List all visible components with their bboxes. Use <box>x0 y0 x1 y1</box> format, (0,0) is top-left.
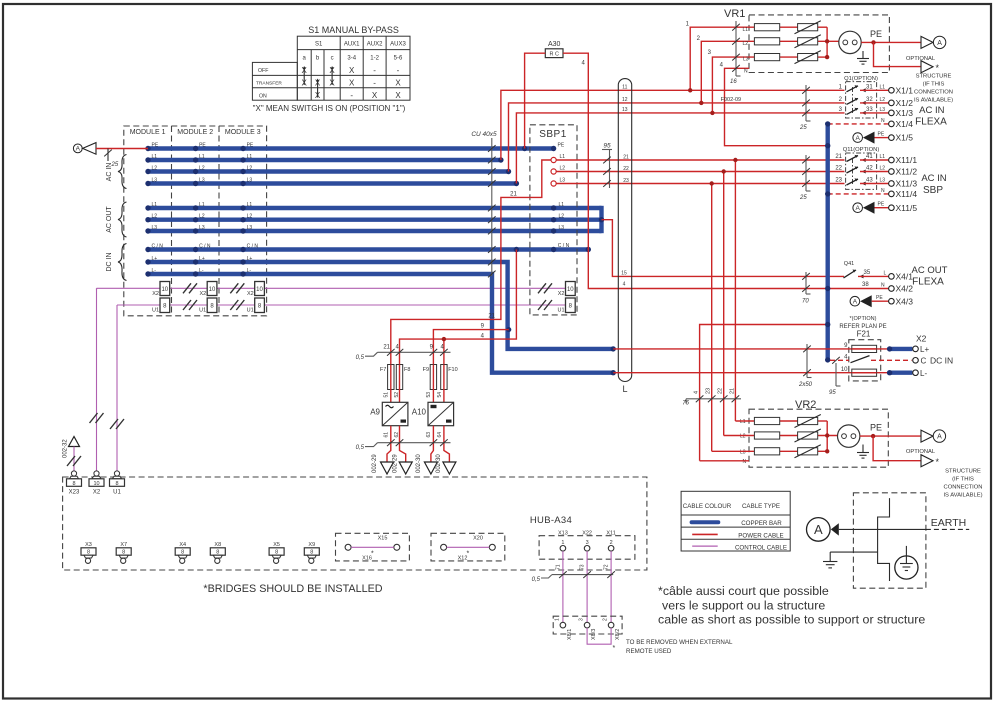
svg-text:*: * <box>371 551 374 558</box>
svg-text:COPPER BAR: COPPER BAR <box>741 520 782 527</box>
svg-text:38: 38 <box>862 282 869 288</box>
svg-text:L1: L1 <box>740 419 746 425</box>
svg-text:10: 10 <box>567 287 574 293</box>
svg-text:L2: L2 <box>880 97 886 103</box>
wire 22 SBP L2 to Q11 <box>556 171 844 173</box>
svg-text:(IF THIS: (IF THIS <box>923 82 945 88</box>
svg-text:10: 10 <box>161 287 168 293</box>
svg-text:13: 13 <box>622 107 628 113</box>
svg-text:002-32: 002-32 <box>63 439 69 458</box>
svg-text:cable as short as possible to: cable as short as possible to support or… <box>658 613 925 627</box>
svg-text:L2: L2 <box>247 214 253 220</box>
svg-text:X20: X20 <box>473 536 483 542</box>
svg-text:54: 54 <box>437 392 443 398</box>
wire VR1 L2 riser <box>701 41 754 103</box>
svg-text:X2: X2 <box>916 334 927 344</box>
VR1 surge protection <box>686 8 953 146</box>
wires fuses to A9/A10 <box>390 390 392 403</box>
ground under socket <box>862 51 864 59</box>
bundle 16 marker <box>735 21 737 76</box>
wire 22 drop to VR2 L2 <box>723 172 725 436</box>
svg-text:L2: L2 <box>880 166 886 172</box>
svg-text:16: 16 <box>730 79 737 85</box>
varistor L3 <box>798 54 818 61</box>
svg-text:IS AVAILABLE): IS AVAILABLE) <box>943 493 982 499</box>
connector X4 <box>175 542 190 563</box>
wire 21 SBP L1 to Q11 <box>556 159 844 161</box>
svg-text:002-30: 002-30 <box>416 454 422 473</box>
wire 3 from Q1 to AC IN L3 <box>516 113 844 184</box>
label AC OUT with brace <box>106 202 127 237</box>
svg-text:X: X <box>395 78 401 87</box>
connector X7 <box>116 542 131 563</box>
arrow to structure <box>831 523 839 535</box>
svg-text:3-4: 3-4 <box>347 55 356 61</box>
svg-text:A: A <box>856 135 861 142</box>
svg-text:PE: PE <box>878 202 885 208</box>
svg-text:42: 42 <box>866 166 873 172</box>
svg-text:C: C <box>921 356 927 365</box>
svg-text:FLEXA: FLEXA <box>915 117 947 128</box>
svg-text:L-: L- <box>920 369 927 378</box>
pin numbers 61-64 <box>384 432 443 438</box>
svg-text:L3: L3 <box>247 177 253 183</box>
svg-text:CONNECTION: CONNECTION <box>914 90 953 96</box>
svg-text:F10: F10 <box>448 367 457 373</box>
copper bar DC L+ <box>148 262 613 349</box>
svg-text:23: 23 <box>623 178 629 184</box>
CU 40x5 busbar marker <box>471 131 497 277</box>
svg-text:IS AVAILABLE): IS AVAILABLE) <box>914 98 953 104</box>
svg-text:73: 73 <box>580 564 586 570</box>
svg-text:N: N <box>743 459 747 465</box>
svg-text:N: N <box>881 283 885 289</box>
svg-text:22: 22 <box>623 166 629 172</box>
svg-text:CONNECTION: CONNECTION <box>944 485 983 491</box>
svg-text:F21: F21 <box>857 330 871 339</box>
svg-text:L1: L1 <box>152 202 158 208</box>
earth structure group <box>807 493 970 588</box>
fuse F8 <box>396 365 410 390</box>
svg-text:*: * <box>936 63 940 73</box>
svg-text:4: 4 <box>623 282 626 288</box>
svg-text:0,5: 0,5 <box>356 355 365 361</box>
svg-text:X22: X22 <box>582 531 592 537</box>
svg-text:25: 25 <box>799 125 807 131</box>
svg-text:1-2: 1-2 <box>370 55 379 61</box>
svg-text:A9: A9 <box>370 408 380 417</box>
copper bar AC OUT L2 <box>148 217 602 221</box>
svg-text:STRUCTURE: STRUCTURE <box>945 469 981 475</box>
svg-text:X15: X15 <box>378 536 388 542</box>
svg-text:vers le support ou la structur: vers le support ou la structure <box>662 599 825 613</box>
svg-text:-: - <box>350 91 353 100</box>
label DC IN with brace <box>106 244 127 281</box>
bundle 2x50 marker <box>798 344 813 388</box>
svg-text:X11/4: X11/4 <box>896 189 918 199</box>
svg-text:L2: L2 <box>199 214 205 220</box>
svg-text:U1: U1 <box>247 308 254 314</box>
terminal X11/4 N dashed <box>828 188 918 199</box>
svg-text:X8/2: X8/2 <box>615 629 621 640</box>
svg-text:23: 23 <box>835 178 842 184</box>
svg-text:C / N: C / N <box>247 243 259 249</box>
wire 9 DC L+ row <box>613 348 889 350</box>
svg-text:X13: X13 <box>558 531 568 537</box>
svg-text:0,5: 0,5 <box>532 577 541 583</box>
remote plug box X8 <box>553 616 622 640</box>
svg-text:X2: X2 <box>558 291 565 297</box>
svg-text:*BRIDGES SHOULD BE INSTALLED: *BRIDGES SHOULD BE INSTALLED <box>203 583 382 595</box>
fuse F21-10 <box>852 369 877 376</box>
copper bar AC OUT L3 <box>148 229 602 233</box>
wire C dashed with switch <box>830 359 849 361</box>
svg-text:L2: L2 <box>199 165 205 171</box>
svg-text:22: 22 <box>718 388 724 394</box>
svg-text:11: 11 <box>622 85 627 91</box>
svg-text:X2: X2 <box>152 291 159 297</box>
svg-text:A: A <box>856 205 861 212</box>
svg-text:REMOTE USED: REMOTE USED <box>626 648 672 655</box>
svg-text:70: 70 <box>802 299 809 305</box>
svg-text:L: L <box>622 384 627 394</box>
svg-text:L1: L1 <box>247 202 253 208</box>
svg-text:MODULE 2: MODULE 2 <box>177 129 213 136</box>
bundle 76 marker <box>682 388 741 407</box>
svg-text:OFF: OFF <box>258 68 268 74</box>
svg-text:L3: L3 <box>560 178 566 184</box>
terminal X4/3 PE with A arrow <box>850 295 913 307</box>
svg-text:F002-09: F002-09 <box>721 97 742 103</box>
terminal X11/5 PE with A arrow <box>853 202 917 214</box>
svg-text:X1/1: X1/1 <box>896 85 914 95</box>
SBP1 input plug circles <box>551 157 556 186</box>
svg-text:F9: F9 <box>423 367 429 373</box>
svg-text:PE: PE <box>870 423 882 433</box>
svg-text:21: 21 <box>510 192 517 198</box>
svg-text:*câble aussi court que possibl: *câble aussi court que possible <box>658 584 829 598</box>
cable break marks on control risers <box>90 413 104 423</box>
cable arrows 002-29 / 002-30 <box>381 462 456 474</box>
SBP1 box <box>530 125 577 315</box>
wire 4 N bus to VR2 N <box>700 325 828 461</box>
connector X9 <box>304 542 319 563</box>
svg-text:X1/3: X1/3 <box>896 108 914 118</box>
svg-text:35: 35 <box>864 270 871 276</box>
svg-text:AUX3: AUX3 <box>390 42 406 48</box>
svg-text:C / N: C / N <box>558 243 570 249</box>
svg-text:CABLE COLOUR: CABLE COLOUR <box>683 503 732 510</box>
svg-text:X1/5: X1/5 <box>896 133 914 143</box>
copper bar PE <box>148 146 554 150</box>
earth electrode circle <box>895 556 918 579</box>
svg-text:21: 21 <box>488 314 495 320</box>
copper bar AC IN L2 <box>148 169 509 173</box>
svg-text:95: 95 <box>829 390 836 396</box>
fuse F7 <box>380 365 394 390</box>
svg-text:12: 12 <box>622 97 628 103</box>
node A arrow feeding PE <box>73 143 148 168</box>
svg-text:L2: L2 <box>559 214 565 220</box>
svg-text:X11: X11 <box>606 531 615 537</box>
svg-text:X: X <box>349 78 355 87</box>
svg-text:N: N <box>881 118 885 124</box>
svg-text:L2: L2 <box>152 214 158 220</box>
svg-text:L2: L2 <box>247 165 253 171</box>
svg-text:N: N <box>744 69 748 75</box>
switch Q1 (OPTION) <box>839 76 889 118</box>
fuse VR2-L1 <box>754 417 779 424</box>
control cable riser to U1 connector <box>116 305 118 471</box>
svg-text:21: 21 <box>835 154 842 160</box>
svg-text:15: 15 <box>621 271 627 277</box>
svg-text:L1: L1 <box>743 27 749 33</box>
svg-text:L3: L3 <box>880 107 886 113</box>
bundle 25 marker rows 1-3 <box>799 85 811 131</box>
control wires 71/73/72 down to X8 <box>562 551 564 622</box>
svg-text:MODULE 3: MODULE 3 <box>225 129 261 136</box>
svg-text:X2: X2 <box>199 291 206 297</box>
svg-text:MODULE 1: MODULE 1 <box>130 129 166 136</box>
svg-text:72: 72 <box>604 564 610 570</box>
svg-text:U1: U1 <box>113 490 121 496</box>
svg-text:A10: A10 <box>412 408 427 417</box>
copper bar AC OUT L1 <box>148 206 602 210</box>
svg-text:-: - <box>373 78 376 87</box>
svg-text:F8: F8 <box>404 367 410 373</box>
bundle 0,5 marker lower <box>356 439 451 451</box>
svg-text:X: X <box>349 66 355 75</box>
wire 2 from Q1 to AC IN L2 <box>509 103 845 172</box>
svg-text:L3: L3 <box>740 449 746 455</box>
ground under socket VR2 <box>862 445 864 453</box>
svg-text:5-6: 5-6 <box>394 55 403 61</box>
terminal X1/4 N dashed <box>828 118 914 129</box>
svg-text:*(OPTION): *(OPTION) <box>850 316 877 322</box>
svg-text:S1: S1 <box>315 42 323 48</box>
svg-text:EARTH: EARTH <box>931 517 966 529</box>
svg-text:X4: X4 <box>179 542 186 548</box>
svg-text:L+: L+ <box>920 345 929 354</box>
hub box HUB-A34 <box>63 477 647 570</box>
output wires to plant cables <box>387 426 391 462</box>
wire A30 right (4) down to C/N <box>563 53 588 249</box>
fuse VR2-L3 <box>754 448 779 455</box>
svg-text:X8/3: X8/3 <box>591 629 597 640</box>
svg-text:X2: X2 <box>247 291 254 297</box>
legend cable colour table <box>681 491 790 551</box>
node A circle <box>807 518 831 542</box>
wires through fuses/varistors <box>780 26 798 28</box>
svg-text:32: 32 <box>866 97 873 103</box>
svg-text:25: 25 <box>111 162 119 168</box>
control cable U1 row <box>117 304 566 306</box>
svg-text:002-30: 002-30 <box>436 454 442 473</box>
remote terminal box X13/X22/X11 <box>539 531 635 560</box>
svg-text:8: 8 <box>72 481 75 487</box>
svg-text:L3: L3 <box>152 177 158 183</box>
terminals X1/1-3 <box>889 85 914 118</box>
bundle 95 marker at SBP right <box>602 143 612 189</box>
svg-text:3: 3 <box>579 618 585 621</box>
copper bar C/N <box>148 247 588 251</box>
svg-text:DC IN: DC IN <box>106 252 113 271</box>
svg-text:A: A <box>853 299 858 306</box>
fuse F-L3 <box>754 54 779 61</box>
N bus junction dots <box>825 121 830 362</box>
svg-text:A: A <box>814 522 823 537</box>
wire 23 drop to VR2 L3 <box>711 184 713 452</box>
bundle 70 marker <box>802 272 811 305</box>
copper bar AC IN L3 <box>148 181 516 185</box>
svg-text:8: 8 <box>115 481 118 487</box>
svg-text:L+: L+ <box>199 256 205 262</box>
svg-text:L2: L2 <box>560 166 566 172</box>
copper bar AC IN L1 <box>148 158 501 162</box>
module terminal labels and dots <box>152 142 259 273</box>
svg-text:L-: L- <box>199 268 204 274</box>
svg-text:X1/2: X1/2 <box>896 98 914 108</box>
svg-text:PE: PE <box>558 142 565 148</box>
svg-text:10: 10 <box>256 287 263 293</box>
socket symbol <box>839 31 861 53</box>
svg-text:X23: X23 <box>69 490 80 496</box>
removable bridge X8/3 to X8/2 <box>587 628 611 644</box>
wire 4 VR1 N riser to N bus <box>725 68 828 145</box>
switch Q41 <box>844 261 914 282</box>
bundle 25 marker rows 21-23 <box>799 155 811 201</box>
svg-text:R C: R C <box>549 52 559 58</box>
svg-text:PE: PE <box>878 132 885 138</box>
terminals X11/1-3 <box>889 155 918 189</box>
svg-text:L1: L1 <box>199 154 205 160</box>
wire 4 from C/N to F8/F10 <box>400 250 517 365</box>
svg-text:c: c <box>331 55 334 61</box>
svg-text:FLEXA: FLEXA <box>912 277 944 288</box>
label AC IN with brace <box>106 155 127 189</box>
svg-text:L1: L1 <box>559 202 565 208</box>
svg-text:SBP1: SBP1 <box>539 129 567 140</box>
svg-text:61: 61 <box>384 432 390 438</box>
svg-text:-: - <box>397 66 400 75</box>
fuse F21-9 <box>852 345 877 352</box>
svg-text:41: 41 <box>866 154 873 160</box>
VR2 surge protection <box>700 399 983 499</box>
svg-text:AC OUT: AC OUT <box>106 206 113 233</box>
fuse block F21 <box>613 330 953 381</box>
copper bar DC L- <box>148 274 613 373</box>
varistor VR2-L3 <box>798 448 818 455</box>
svg-text:L3: L3 <box>559 225 565 231</box>
connector X8 <box>210 542 225 563</box>
connector X23 <box>67 471 82 496</box>
varistor VR2-L2 <box>798 432 818 439</box>
svg-text:76: 76 <box>682 401 689 407</box>
converter A10 <box>412 402 454 425</box>
connector U1 <box>110 471 125 496</box>
svg-text:AC IN: AC IN <box>919 105 944 116</box>
connector blocks X2/U1 on modules and SBP1 <box>97 282 576 314</box>
svg-text:L1: L1 <box>199 202 205 208</box>
terminal X4/2 <box>862 282 913 294</box>
copper bar N bus vertical <box>826 124 830 360</box>
svg-text:U1: U1 <box>557 308 564 314</box>
converter A9 <box>370 402 408 425</box>
svg-text:L3: L3 <box>743 57 749 63</box>
svg-text:"X" MEAN SWITGH IS ON (POSITIO: "X" MEAN SWITGH IS ON (POSITION "1") <box>253 104 406 113</box>
svg-text:DC IN: DC IN <box>930 356 953 366</box>
bridge box X15/X16 <box>336 533 410 561</box>
svg-text:AUX1: AUX1 <box>344 42 360 48</box>
svg-text:*: * <box>936 457 940 467</box>
svg-text:PE: PE <box>876 295 883 301</box>
svg-text:*: * <box>467 551 470 558</box>
svg-text:(IF THIS: (IF THIS <box>952 477 974 483</box>
svg-text:2: 2 <box>603 618 609 621</box>
svg-text:L3: L3 <box>199 177 205 183</box>
svg-text:X7: X7 <box>120 542 127 548</box>
wire 9 tap from L+ riser to A10 <box>433 330 508 365</box>
svg-text:L3: L3 <box>152 225 158 231</box>
svg-text:L-: L- <box>247 268 252 274</box>
junction dots wires 1,2,3 <box>688 88 692 92</box>
terminal X1/5 PE with A arrow <box>853 132 913 144</box>
svg-text:X11/2: X11/2 <box>896 167 918 177</box>
svg-text:21: 21 <box>729 388 735 394</box>
svg-text:X11/1: X11/1 <box>896 155 918 165</box>
svg-text:X8/1: X8/1 <box>567 629 573 640</box>
wire A30 left to PE bar <box>525 53 546 148</box>
svg-text:64: 64 <box>437 432 443 438</box>
svg-text:71: 71 <box>556 564 562 570</box>
svg-text:X3: X3 <box>85 542 92 548</box>
svg-text:L-: L- <box>152 268 157 274</box>
svg-text:STRUCTURE: STRUCTURE <box>916 74 952 80</box>
bundle 0,5 marker hub <box>532 571 615 583</box>
svg-text:23: 23 <box>706 388 712 394</box>
svg-text:PE: PE <box>247 142 254 148</box>
svg-text:CONTROL CABLE: CONTROL CABLE <box>735 544 787 551</box>
svg-text:PE: PE <box>199 142 206 148</box>
svg-text:U1: U1 <box>152 308 159 314</box>
svg-text:X5: X5 <box>273 542 280 548</box>
svg-text:-: - <box>373 66 376 75</box>
fuse VR2-L2 <box>754 432 779 439</box>
svg-text:L1: L1 <box>152 154 158 160</box>
cable arrow 002-32 to X23 <box>63 437 82 472</box>
svg-text:AC OUT: AC OUT <box>912 265 948 276</box>
wire 23 SBP L3 to Q11 <box>556 183 844 185</box>
svg-text:2x50: 2x50 <box>798 382 813 388</box>
copper bar AC OUT tie <box>599 206 603 233</box>
svg-text:AUX2: AUX2 <box>367 42 383 48</box>
wire VR1 L3 riser <box>712 57 754 113</box>
svg-text:X11/3: X11/3 <box>896 179 918 189</box>
svg-text:AC IN: AC IN <box>921 173 946 184</box>
svg-text:CABLE TYPE: CABLE TYPE <box>742 503 780 510</box>
svg-text:Q11(OPTION): Q11(OPTION) <box>843 147 880 153</box>
fuse F9 <box>423 365 437 390</box>
svg-text:21: 21 <box>383 345 390 351</box>
svg-text:X: X <box>395 91 401 100</box>
A30 RC snubber <box>545 41 563 58</box>
wire L from AC OUT tie to X4/1 <box>602 220 845 277</box>
svg-text:L2: L2 <box>152 165 158 171</box>
svg-text:N: N <box>881 188 885 194</box>
wire VR1 L1 riser <box>690 27 754 90</box>
svg-text:33: 33 <box>866 107 873 113</box>
svg-text:L1: L1 <box>560 154 566 160</box>
